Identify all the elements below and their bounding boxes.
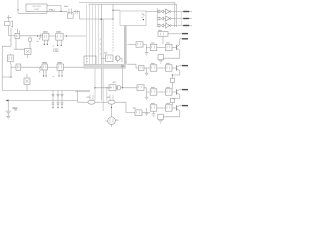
bus verticals right bbox=[180, 12, 182, 26]
battery BT1 bbox=[5, 101, 11, 117]
R3 label bbox=[56, 31, 61, 32]
net label row3 bbox=[183, 25, 189, 26]
wire mid row y88 bbox=[95, 68, 112, 100]
capacitor C6 column bbox=[56, 91, 59, 108]
resistor R15 box bbox=[165, 44, 172, 50]
transistor Q2 box bbox=[25, 49, 32, 55]
wire R5 legs down bbox=[44, 70, 46, 76]
net label row35 bbox=[182, 33, 188, 34]
pad P1 bbox=[54, 49, 58, 52]
net label row1 bbox=[183, 11, 189, 12]
wire Q9 emitter bbox=[172, 95, 179, 99]
wire OSC to bus bbox=[73, 11, 113, 19]
resistor R21 box bbox=[165, 89, 172, 95]
resistor R5 box bbox=[42, 64, 47, 70]
gate G2 bbox=[157, 17, 163, 20]
ground row7 bbox=[145, 108, 149, 116]
node row A dots bbox=[37, 35, 67, 36]
node junction R10 bbox=[94, 87, 123, 88]
wire R8 to row4 bbox=[143, 45, 150, 48]
svg-text:4 MHZ: 4 MHZ bbox=[34, 9, 41, 11]
transistor Q6 bbox=[108, 117, 116, 125]
wire R2 to R3 bbox=[49, 35, 56, 37]
capacitor C5 column bbox=[51, 91, 54, 108]
capacitor C1 marks bbox=[75, 10, 77, 14]
wire R2 legs down bbox=[44, 40, 47, 44]
wire row B left bbox=[2, 64, 16, 77]
wire top bus A bbox=[79, 2, 175, 27]
node R5 dots bbox=[43, 75, 47, 76]
wire R3 legs down bbox=[58, 40, 62, 45]
transistor Q7 bbox=[177, 44, 180, 50]
wire R12 to row7 bbox=[142, 112, 150, 114]
buffer U5A bbox=[166, 9, 172, 14]
node dot osc net bbox=[60, 11, 61, 12]
capacitor C2 bracket bbox=[11, 21, 13, 28]
gate G3 bbox=[157, 24, 163, 27]
crystal X1 body bbox=[67, 13, 73, 18]
transistor Q5 bbox=[115, 56, 120, 61]
wire Q6 top leg bbox=[111, 104, 113, 117]
IC U2 box bbox=[120, 11, 146, 26]
wire row5 to Q8 bbox=[172, 67, 176, 69]
inductor L1 bbox=[88, 95, 95, 105]
wire U1 top output bbox=[47, 6, 61, 12]
IC U3 box bbox=[84, 56, 96, 64]
wire Q6 bottom bbox=[105, 121, 112, 127]
wire Q9 collector out bbox=[180, 88, 183, 90]
node rail ticks bbox=[100, 39, 102, 54]
R5 label bbox=[42, 62, 47, 63]
transistor Q11 bbox=[116, 86, 120, 90]
wire input to oscillator bbox=[18, 0, 47, 13]
ground below R25 bbox=[159, 121, 163, 124]
wire R1 down bbox=[29, 41, 31, 48]
wire main rail second bbox=[102, 19, 104, 111]
wire Q2 down bbox=[14, 38, 28, 58]
wire R6 right bbox=[63, 66, 86, 68]
wire Q10 collector out bbox=[180, 104, 183, 106]
resistor R2 box bbox=[39, 33, 49, 40]
node arrow left bbox=[5, 100, 8, 102]
wire R13 down bbox=[162, 36, 164, 44]
buffer U5C bbox=[166, 23, 172, 28]
wire row1 out bbox=[171, 11, 192, 13]
resistor R8 box bbox=[136, 42, 143, 47]
wire row6 to Q9 bbox=[172, 91, 176, 93]
transistor Q3 box bbox=[16, 64, 21, 70]
ground below R16 bbox=[159, 61, 163, 64]
wire R9 to row5 bbox=[144, 67, 150, 69]
R6 label bbox=[57, 62, 62, 63]
wire R6 legs down bbox=[59, 70, 62, 75]
transistor Q4 box bbox=[24, 78, 30, 84]
bus thick cable bbox=[124, 26, 127, 65]
R2 label bbox=[43, 31, 48, 32]
node Q6 top dot bbox=[111, 107, 112, 108]
resistor R16 box bbox=[158, 55, 164, 60]
ground below R23 bbox=[152, 111, 156, 116]
wire R19 down bbox=[171, 82, 173, 88]
wire R11 to row6 bbox=[144, 88, 150, 92]
ground row5 bbox=[145, 68, 149, 76]
net label row5 bbox=[182, 65, 188, 66]
wire dashed rail bbox=[112, 19, 114, 53]
U2 pin text bbox=[141, 14, 144, 20]
node rail dot2 bbox=[112, 10, 113, 11]
cable arrow bbox=[121, 65, 125, 68]
resistor R25 box bbox=[158, 114, 164, 119]
wire Q7 collector out bbox=[180, 39, 182, 45]
wire L1 L2 link bbox=[95, 101, 108, 103]
node C5 dot bbox=[52, 107, 53, 108]
wire Q5 out bbox=[118, 58, 122, 62]
resistor R11 box bbox=[137, 85, 144, 91]
wire row6 mid bbox=[157, 91, 166, 93]
net label row2 bbox=[183, 18, 189, 19]
wire R3 right to bus bbox=[63, 35, 86, 37]
wire band to R9 bbox=[127, 64, 139, 68]
resistor R14 box bbox=[150, 44, 157, 50]
wire Q4 stubs bbox=[26, 74, 28, 91]
wire row A bbox=[9, 35, 15, 37]
ground tick row B bbox=[52, 75, 54, 77]
wire row3 out bbox=[171, 25, 192, 27]
BT1 label bbox=[13, 107, 18, 110]
crystal X2 body bbox=[5, 21, 10, 25]
resistor R19 box bbox=[170, 78, 174, 82]
net label row4 bbox=[182, 38, 188, 39]
wire bottom bus bbox=[2, 91, 90, 92]
node C7 dot bbox=[61, 107, 62, 108]
crystal X1 plates bbox=[69, 9, 72, 15]
wire G2 to U5B bbox=[164, 18, 166, 20]
wire L2 out bbox=[115, 102, 135, 112]
wire R5 to R6 bbox=[47, 66, 57, 68]
resistor R4 zigzag bbox=[39, 66, 41, 73]
wire stub top bbox=[7, 15, 12, 21]
wire R7 left bbox=[101, 57, 105, 59]
net label row7 bbox=[182, 105, 188, 106]
wire Q1 to R2 bbox=[20, 35, 43, 37]
wire U2 to row1 bbox=[146, 11, 159, 13]
resistor R10 box bbox=[109, 85, 116, 91]
resistor R1 vertical bbox=[29, 36, 32, 41]
resistor R18 box bbox=[165, 65, 172, 71]
wire top bus B bbox=[89, 4, 177, 27]
U1 value label line1 bbox=[32, 6, 42, 8]
U1 value label line2 bbox=[34, 9, 41, 11]
wire R10 out junction bbox=[121, 68, 137, 87]
node R6 dots bbox=[58, 75, 62, 76]
wire R13 out bbox=[168, 33, 183, 35]
node row5 emitter dot bbox=[172, 74, 173, 75]
misc tiny value labels bbox=[64, 6, 170, 121]
resistor R24 box bbox=[165, 105, 172, 111]
wire main rail bbox=[100, 4, 102, 100]
wire bottom long net bbox=[7, 101, 88, 103]
wire Q10 emitter bbox=[163, 111, 179, 117]
ground row6 bbox=[145, 92, 149, 100]
cable gray band bbox=[84, 64, 126, 68]
resistor R23 box bbox=[150, 105, 157, 111]
node junction dot bbox=[101, 18, 114, 20]
resistor R3 box bbox=[56, 33, 63, 40]
wire Q3 to R5 bbox=[21, 66, 42, 68]
inductor L2 bbox=[108, 95, 115, 105]
resistor R17 box bbox=[150, 65, 157, 71]
wire left rail corner bbox=[2, 46, 11, 90]
node input arrow bbox=[17, 9, 19, 11]
capacitor C7 column bbox=[60, 91, 63, 108]
buffer U5B bbox=[166, 16, 172, 21]
node C6 dot bbox=[57, 107, 58, 108]
wire row4 mid bbox=[157, 47, 166, 49]
wire Q7 emitter bbox=[164, 50, 180, 58]
wire C4 stubs bbox=[9, 54, 11, 64]
resistor R7 box bbox=[106, 55, 114, 62]
net label row6 bbox=[182, 89, 188, 90]
gate G1 bbox=[157, 10, 163, 13]
wire row5 mid bbox=[157, 67, 166, 69]
node OSC label bbox=[49, 9, 56, 12]
wire ladder connect bbox=[76, 91, 78, 101]
wire R22 down bbox=[171, 103, 173, 105]
wire Q8 collector out bbox=[180, 64, 183, 66]
node drop junction bbox=[106, 87, 107, 100]
bus ribbon lines bbox=[87, 4, 99, 64]
svg-text:OSC MOD: OSC MOD bbox=[32, 6, 42, 8]
wire branch rail bbox=[113, 4, 120, 19]
node row B dot bbox=[10, 76, 11, 77]
wire row7 mid bbox=[157, 107, 166, 109]
wire Q8 emitter bbox=[172, 71, 179, 79]
wire OSC net bbox=[47, 10, 67, 12]
capacitor C4 box bbox=[8, 55, 14, 62]
node R3 leg dots bbox=[57, 45, 62, 46]
wire cable to R8 bbox=[128, 44, 137, 46]
ground ticks row A bbox=[36, 41, 54, 46]
wire gate feed rail bbox=[156, 8, 158, 27]
node R2 leg dots bbox=[44, 44, 48, 45]
transistor Q8 bbox=[177, 65, 180, 70]
ground row4 bbox=[145, 48, 149, 56]
resistor R12 box bbox=[135, 110, 142, 116]
transistor Q9 bbox=[177, 89, 180, 94]
wire G3 to U5C bbox=[164, 25, 166, 27]
resistor R22 box bbox=[170, 98, 174, 102]
wire row7 to Q10 bbox=[172, 107, 176, 109]
op-amp U1 oscillator module box bbox=[26, 4, 47, 12]
resistor R13 box bbox=[158, 32, 168, 37]
resistor R6 box bbox=[57, 64, 63, 70]
resistor R9 box bbox=[139, 65, 144, 70]
wire X2 down bbox=[8, 26, 10, 36]
wire left rail top bbox=[9, 28, 19, 46]
transistor Q1 box bbox=[15, 33, 20, 38]
wire row4 to Q7 bbox=[172, 47, 176, 49]
transistor Q10 bbox=[177, 105, 180, 110]
wire G1 to U5A bbox=[164, 11, 166, 13]
wire row2 out bbox=[171, 18, 192, 20]
ground GND1 bbox=[6, 116, 10, 119]
resistor R20 box bbox=[150, 89, 157, 95]
